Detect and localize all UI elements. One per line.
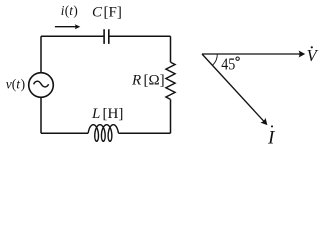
svg-text:C: C — [92, 4, 103, 20]
svg-text:V: V — [307, 46, 319, 65]
svg-text:I: I — [267, 128, 276, 148]
svg-text:45: 45 — [221, 55, 235, 74]
svg-text:[Ω]: [Ω] — [144, 72, 165, 88]
svg-text:R: R — [131, 72, 141, 88]
svg-text:L: L — [91, 106, 100, 122]
svg-text:): ) — [21, 77, 26, 92]
svg-text:[H]: [H] — [103, 106, 124, 122]
svg-text:[F]: [F] — [104, 4, 122, 20]
svg-text:): ) — [73, 3, 77, 18]
